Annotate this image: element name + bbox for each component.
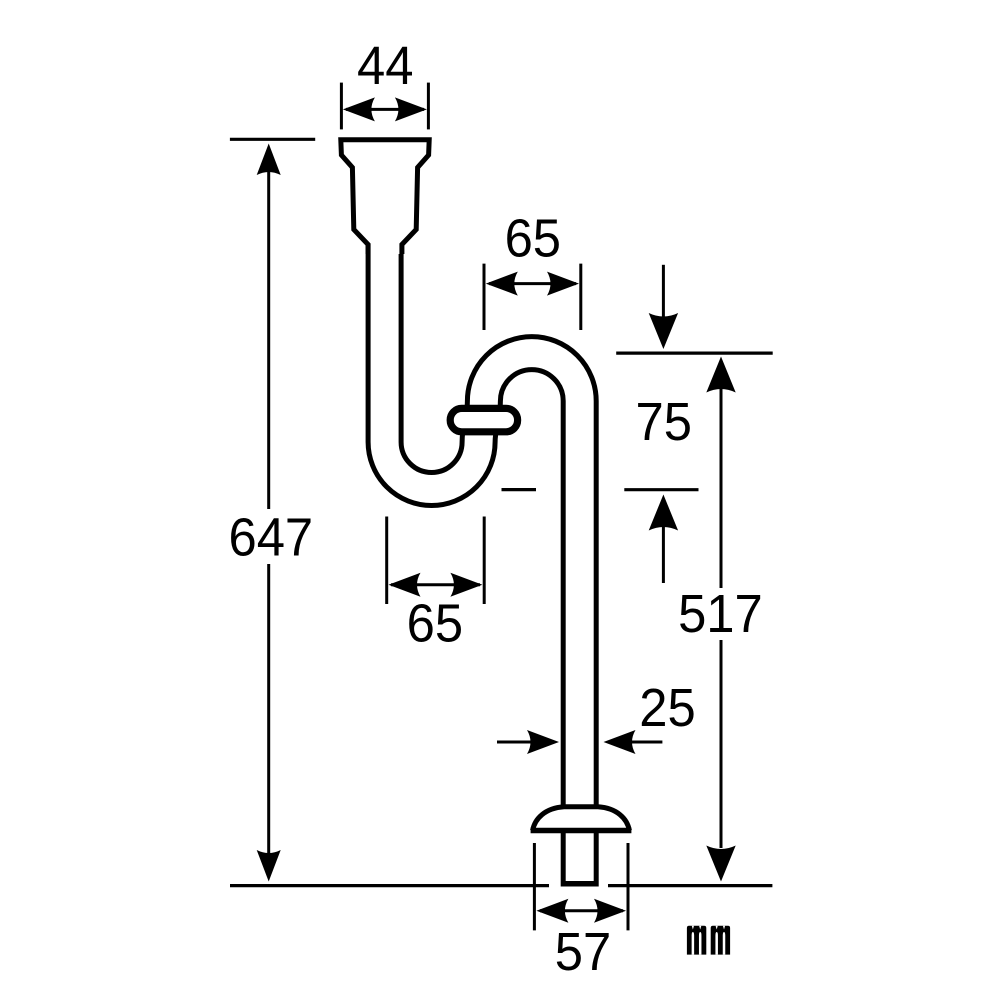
- dim 65 bottom: extension lines: [385, 517, 388, 605]
- unit label mm: [687, 926, 730, 955]
- dim 65 top: arrows: [489, 282, 576, 285]
- svg-text:65: 65: [505, 209, 561, 269]
- dim 75: bottom reference line: [624, 488, 698, 491]
- dim 65 top: extension lines: [483, 264, 486, 330]
- escutcheon dome: [533, 807, 630, 831]
- svg-text:75: 75: [635, 393, 691, 453]
- funnel (tailpiece inlet): [341, 140, 429, 254]
- S-trap pipe body (tube outline): [385, 240, 580, 887]
- dim 75: upper arrow pointing down: [662, 265, 665, 320]
- pipe inner white: [385, 240, 580, 881]
- svg-text:517: 517: [678, 585, 763, 645]
- dim 75: top reference line: [616, 352, 773, 355]
- dim 647: top reference line: [230, 138, 315, 141]
- dim 75: tick at trap level: [502, 488, 537, 491]
- dim 75: lower arrow pointing up: [649, 495, 678, 531]
- svg-text:647: 647: [228, 508, 313, 568]
- dim 25: left arrow pointing right: [497, 741, 552, 744]
- svg-text:25: 25: [639, 679, 695, 739]
- dim 65 bottom: arrows: [391, 583, 480, 586]
- floor baseline: [230, 884, 549, 887]
- svg-text:44: 44: [357, 37, 413, 97]
- dim 517: dimension line with arrows: [706, 357, 735, 393]
- dim 647: dimension line with arrows: [267, 170, 270, 509]
- escutcheon base line: [531, 828, 632, 834]
- dim 25: right arrow pointing left: [610, 741, 662, 744]
- svg-text:57: 57: [555, 922, 611, 982]
- dim 57: extension lines: [533, 843, 536, 930]
- dim 57: arrows: [540, 909, 623, 912]
- slip nut: [450, 408, 517, 431]
- dim 44: extension lines: [340, 83, 343, 130]
- dim 44: arrows: [346, 108, 424, 111]
- svg-text:65: 65: [407, 594, 463, 654]
